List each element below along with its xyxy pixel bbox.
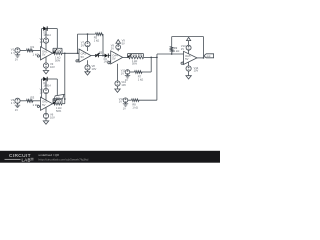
svg-text:10V: 10V	[121, 83, 126, 87]
svg-text:1 kΩ: 1 kΩ	[174, 49, 179, 53]
op-amp OA5	[184, 51, 198, 64]
wire	[41, 29, 43, 51]
svg-text:1 V: 1 V	[11, 101, 15, 105]
label V7	[81, 41, 85, 48]
wire	[172, 36, 204, 38]
wire	[142, 71, 151, 73]
label V11	[121, 69, 126, 76]
power source V9	[116, 43, 121, 51]
op-amp OA3	[79, 49, 91, 62]
wire	[62, 103, 65, 105]
power source V7	[85, 33, 90, 51]
power source V6	[43, 107, 48, 121]
op-amp OA4	[111, 51, 123, 64]
power source V5	[43, 78, 48, 100]
wire	[203, 37, 205, 59]
potentiometer R2	[53, 48, 62, 54]
ground	[123, 104, 128, 111]
voltage source V1	[15, 48, 20, 55]
ground	[15, 105, 20, 112]
wire	[109, 55, 111, 57]
wire	[150, 57, 152, 72]
footer title	[39, 153, 60, 157]
wire	[78, 33, 96, 35]
label R1	[31, 45, 40, 57]
label R4	[54, 101, 62, 113]
svg-text:50%: 50%	[56, 109, 62, 113]
svg-text:50%: 50%	[55, 59, 61, 63]
wire	[20, 49, 26, 51]
diode D1	[43, 26, 47, 30]
label R8	[132, 103, 137, 110]
label R7	[138, 74, 143, 81]
label V1	[11, 48, 15, 55]
svg-text:out: out	[207, 54, 211, 58]
power source V8	[85, 60, 90, 71]
svg-text:1N914: 1N914	[43, 34, 51, 37]
footer bar	[0, 151, 220, 163]
wire	[42, 28, 58, 30]
node plus3	[76, 59, 79, 62]
CircuitLab logo	[5, 153, 34, 162]
resistor R3	[27, 100, 34, 103]
svg-text:1 V: 1 V	[11, 51, 15, 55]
wire	[123, 56, 128, 58]
svg-text:2V: 2V	[111, 47, 114, 51]
wire	[102, 34, 104, 56]
svg-text:http://circuitlab.com/c/p5awek: http://circuitlab.com/c/p5awek7fq3kd	[39, 157, 89, 161]
ground	[85, 72, 90, 75]
svg-text:LAB: LAB	[22, 157, 31, 162]
label D2	[43, 82, 51, 88]
wire	[157, 54, 184, 57]
node flag out	[204, 54, 214, 58]
svg-text:10V: 10V	[92, 67, 97, 71]
wire	[41, 79, 43, 101]
ground	[43, 71, 48, 74]
svg-text:1V: 1V	[40, 40, 43, 44]
svg-text:D3: D3	[99, 52, 103, 55]
svg-text:10V: 10V	[50, 115, 55, 119]
resistor R1	[27, 49, 34, 52]
wire	[62, 52, 79, 54]
svg-text:2V: 2V	[81, 44, 84, 48]
op-amp OA2	[41, 97, 53, 110]
node plus1	[37, 55, 40, 57]
label D4	[104, 58, 112, 64]
voltage source V4	[15, 98, 20, 105]
node flag	[54, 94, 64, 100]
potentiometer R6	[127, 54, 143, 59]
resistor R9	[170, 47, 173, 53]
svg-text:1V: 1V	[125, 79, 128, 82]
wire	[52, 52, 55, 54]
label V13	[181, 44, 186, 51]
ground	[115, 89, 120, 92]
ground	[186, 76, 191, 79]
ground	[15, 55, 20, 62]
power arrow	[187, 37, 191, 40]
node plus5	[181, 61, 184, 64]
label V4	[11, 98, 15, 105]
label V5	[40, 88, 44, 95]
wire	[52, 103, 55, 105]
label D3	[99, 52, 103, 55]
resistor R8	[132, 99, 140, 102]
wire	[139, 99, 157, 101]
svg-text:5V: 5V	[42, 53, 45, 57]
svg-text:5V: 5V	[112, 57, 115, 61]
power source V3	[43, 57, 48, 71]
svg-text:5V: 5V	[42, 103, 45, 107]
diode D2	[43, 77, 47, 81]
wire	[197, 57, 204, 59]
power source V10	[115, 64, 120, 89]
svg-text:10V: 10V	[194, 69, 199, 73]
footer url	[39, 157, 89, 161]
svg-text:5V: 5V	[122, 42, 125, 46]
label V6	[50, 112, 55, 119]
resistor R7	[135, 71, 143, 74]
node plus2	[37, 105, 40, 107]
diode D3	[95, 53, 99, 57]
label V8	[92, 64, 97, 71]
wire	[56, 29, 58, 49]
svg-text:50%: 50%	[132, 63, 138, 66]
wire	[91, 55, 95, 57]
svg-text:R1: R1	[31, 45, 35, 49]
svg-text:1 kΩ: 1 kΩ	[94, 39, 99, 43]
wire	[56, 79, 58, 97]
svg-text:5V: 5V	[185, 57, 188, 61]
svg-text:1N914: 1N914	[43, 85, 51, 88]
wire	[171, 52, 173, 55]
svg-text:10V: 10V	[50, 65, 55, 69]
wire	[130, 71, 135, 73]
svg-text:R6 1kΩ 50%: R6 1kΩ 50%	[130, 55, 143, 57]
power source V14	[186, 62, 191, 76]
node plus4	[108, 61, 111, 64]
label V12	[119, 97, 124, 104]
potentiometer R4	[53, 99, 62, 105]
label arrow	[122, 39, 126, 46]
voltage source V11	[125, 70, 130, 76]
power arrow	[116, 40, 121, 44]
wire	[99, 55, 105, 57]
svg-text:R4 1kΩ: R4 1kΩ	[54, 101, 62, 103]
label V14	[194, 66, 199, 73]
svg-text:1V: 1V	[40, 91, 43, 95]
ground	[125, 76, 130, 83]
svg-text:1V: 1V	[119, 100, 122, 104]
svg-text:1V: 1V	[15, 108, 18, 112]
svg-text:1V: 1V	[123, 107, 126, 110]
resistor R5	[96, 33, 104, 36]
svg-text:1 kΩ: 1 kΩ	[138, 77, 143, 81]
label V3	[50, 62, 55, 69]
wire	[156, 57, 158, 100]
voltage source V12	[123, 98, 128, 104]
wire	[77, 34, 79, 54]
svg-text:2V: 2V	[181, 47, 184, 51]
wire	[64, 53, 66, 103]
wire	[33, 50, 42, 52]
wire	[20, 100, 26, 102]
svg-text:1V: 1V	[15, 58, 18, 62]
svg-text:5V: 5V	[81, 55, 84, 59]
label R3	[31, 95, 40, 107]
wire	[171, 37, 173, 47]
wire	[128, 99, 132, 101]
svg-text:R3: R3	[31, 95, 35, 99]
label D1	[43, 31, 51, 37]
wire	[144, 57, 158, 59]
label V10	[121, 80, 126, 87]
op-amp OA1	[41, 47, 53, 60]
diode D4	[105, 53, 109, 57]
wire	[42, 78, 58, 80]
power source V13	[186, 41, 191, 54]
label R5	[94, 36, 99, 43]
label R9	[174, 46, 179, 53]
ground	[43, 121, 48, 124]
svg-text:1 kΩ: 1 kΩ	[132, 106, 137, 110]
svg-text:1V: 1V	[121, 72, 124, 76]
label R2	[54, 50, 62, 62]
svg-text:R2 1kΩ: R2 1kΩ	[54, 50, 62, 52]
wire	[33, 100, 42, 102]
power source V2	[43, 28, 48, 50]
label R6	[132, 60, 138, 66]
label V2	[40, 37, 44, 44]
label V9	[111, 44, 115, 51]
